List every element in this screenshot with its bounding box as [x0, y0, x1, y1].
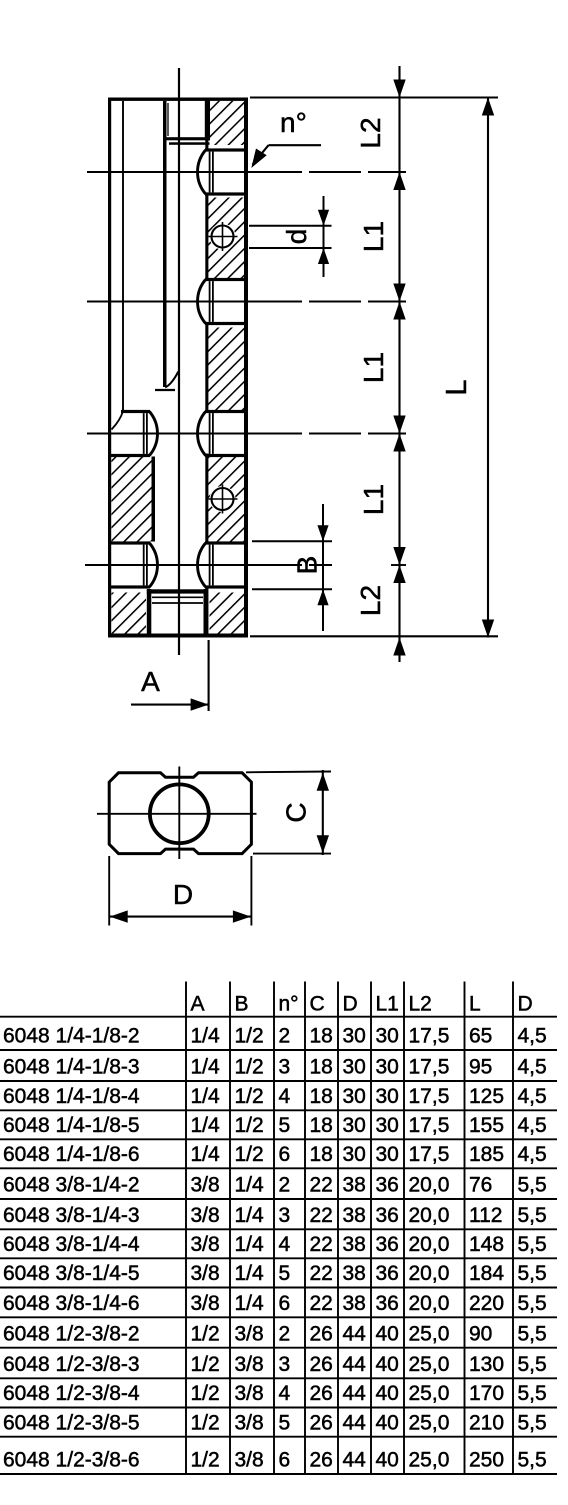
- svg-text:36: 36: [376, 1262, 399, 1285]
- svg-text:4,5: 4,5: [518, 1085, 547, 1108]
- svg-text:n°: n°: [279, 993, 299, 1016]
- svg-text:4: 4: [279, 1382, 291, 1405]
- svg-text:22: 22: [310, 1204, 333, 1227]
- svg-text:1/2: 1/2: [235, 1025, 264, 1048]
- svg-text:6048 1/4-1/8-2: 6048 1/4-1/8-2: [3, 1025, 140, 1048]
- svg-text:25,0: 25,0: [409, 1322, 450, 1345]
- svg-text:6048 1/2-3/8-3: 6048 1/2-3/8-3: [3, 1353, 140, 1376]
- svg-text:6048 1/4-1/8-3: 6048 1/4-1/8-3: [3, 1056, 140, 1079]
- svg-text:3/8: 3/8: [191, 1292, 220, 1315]
- svg-text:40: 40: [376, 1322, 399, 1345]
- svg-text:5,5: 5,5: [518, 1382, 547, 1405]
- svg-text:26: 26: [310, 1322, 333, 1345]
- svg-text:5,5: 5,5: [518, 1233, 547, 1256]
- svg-text:38: 38: [343, 1174, 366, 1197]
- svg-text:6048 1/2-3/8-4: 6048 1/2-3/8-4: [3, 1382, 140, 1405]
- svg-text:6048 3/8-1/4-5: 6048 3/8-1/4-5: [3, 1262, 140, 1285]
- svg-text:26: 26: [310, 1353, 333, 1376]
- svg-text:3/8: 3/8: [235, 1411, 264, 1434]
- svg-text:40: 40: [376, 1353, 399, 1376]
- svg-text:B: B: [235, 993, 249, 1016]
- svg-text:30: 30: [376, 1056, 399, 1079]
- svg-text:5,5: 5,5: [518, 1292, 547, 1315]
- svg-text:18: 18: [310, 1025, 333, 1048]
- svg-text:5,5: 5,5: [518, 1174, 547, 1197]
- svg-text:44: 44: [343, 1411, 367, 1434]
- svg-text:1/4: 1/4: [235, 1262, 265, 1285]
- svg-text:20,0: 20,0: [409, 1292, 450, 1315]
- svg-text:6048 1/2-3/8-5: 6048 1/2-3/8-5: [3, 1411, 140, 1434]
- svg-text:20,0: 20,0: [409, 1262, 450, 1285]
- svg-text:3/8: 3/8: [191, 1204, 220, 1227]
- svg-text:20,0: 20,0: [409, 1174, 450, 1197]
- svg-text:3: 3: [279, 1204, 291, 1227]
- svg-text:6: 6: [279, 1292, 291, 1315]
- svg-text:L1: L1: [358, 221, 389, 252]
- svg-text:L1: L1: [376, 993, 399, 1016]
- svg-text:38: 38: [343, 1233, 366, 1256]
- svg-text:6048 1/2-3/8-6: 6048 1/2-3/8-6: [3, 1449, 140, 1472]
- svg-text:36: 36: [376, 1292, 399, 1315]
- svg-text:1/2: 1/2: [235, 1085, 264, 1108]
- svg-text:6048 1/2-3/8-2: 6048 1/2-3/8-2: [3, 1322, 140, 1345]
- svg-text:40: 40: [376, 1449, 399, 1472]
- svg-text:1/4: 1/4: [235, 1292, 265, 1315]
- svg-text:1/4: 1/4: [235, 1204, 265, 1227]
- svg-text:40: 40: [376, 1411, 399, 1434]
- svg-text:2: 2: [279, 1025, 291, 1048]
- svg-text:n°: n°: [280, 107, 307, 138]
- svg-text:17,5: 17,5: [409, 1025, 450, 1048]
- svg-text:1/2: 1/2: [235, 1056, 264, 1079]
- svg-text:L: L: [441, 379, 473, 395]
- svg-text:22: 22: [310, 1292, 333, 1315]
- svg-text:1/4: 1/4: [191, 1085, 221, 1108]
- svg-text:25,0: 25,0: [409, 1449, 450, 1472]
- svg-text:36: 36: [376, 1174, 399, 1197]
- svg-text:5,5: 5,5: [518, 1411, 547, 1434]
- svg-text:22: 22: [310, 1233, 333, 1256]
- svg-text:1/2: 1/2: [191, 1382, 220, 1405]
- svg-text:1/2: 1/2: [235, 1143, 264, 1166]
- svg-text:25,0: 25,0: [409, 1382, 450, 1405]
- svg-text:A: A: [191, 993, 205, 1016]
- svg-text:184: 184: [469, 1262, 504, 1285]
- svg-text:25,0: 25,0: [409, 1353, 450, 1376]
- svg-text:44: 44: [343, 1382, 367, 1405]
- svg-text:d: d: [281, 229, 312, 245]
- svg-text:1/2: 1/2: [191, 1449, 220, 1472]
- svg-text:1/4: 1/4: [235, 1174, 265, 1197]
- svg-text:L2: L2: [355, 585, 386, 616]
- svg-text:5,5: 5,5: [518, 1322, 547, 1345]
- svg-text:6048 1/4-1/8-5: 6048 1/4-1/8-5: [3, 1114, 140, 1137]
- svg-text:4: 4: [279, 1085, 291, 1108]
- svg-text:2: 2: [279, 1174, 291, 1197]
- svg-text:30: 30: [376, 1085, 399, 1108]
- svg-text:170: 170: [469, 1382, 504, 1405]
- svg-text:L2: L2: [409, 993, 432, 1016]
- svg-text:30: 30: [343, 1143, 366, 1166]
- svg-text:1/4: 1/4: [191, 1025, 221, 1048]
- svg-text:185: 185: [469, 1143, 504, 1166]
- svg-text:1/4: 1/4: [191, 1056, 221, 1079]
- svg-text:38: 38: [343, 1204, 366, 1227]
- svg-text:17,5: 17,5: [409, 1143, 450, 1166]
- svg-text:4: 4: [279, 1233, 291, 1256]
- svg-text:30: 30: [376, 1143, 399, 1166]
- svg-text:44: 44: [343, 1449, 367, 1472]
- svg-text:3/8: 3/8: [235, 1353, 264, 1376]
- svg-text:30: 30: [343, 1085, 366, 1108]
- svg-text:18: 18: [310, 1114, 333, 1137]
- svg-text:6048 3/8-1/4-3: 6048 3/8-1/4-3: [3, 1204, 140, 1227]
- svg-text:L2: L2: [355, 117, 386, 148]
- svg-text:1/2: 1/2: [191, 1411, 220, 1434]
- svg-text:17,5: 17,5: [409, 1056, 450, 1079]
- svg-text:2: 2: [279, 1322, 291, 1345]
- svg-text:155: 155: [469, 1114, 504, 1137]
- svg-text:76: 76: [469, 1174, 492, 1197]
- svg-text:22: 22: [310, 1262, 333, 1285]
- svg-text:4,5: 4,5: [518, 1114, 547, 1137]
- svg-text:130: 130: [469, 1353, 504, 1376]
- svg-text:6048 1/4-1/8-6: 6048 1/4-1/8-6: [3, 1143, 140, 1166]
- svg-text:38: 38: [343, 1292, 366, 1315]
- svg-text:C: C: [310, 993, 325, 1016]
- svg-text:250: 250: [469, 1449, 504, 1472]
- svg-text:26: 26: [310, 1382, 333, 1405]
- svg-text:20,0: 20,0: [409, 1233, 450, 1256]
- svg-text:5,5: 5,5: [518, 1449, 547, 1472]
- svg-text:4,5: 4,5: [518, 1143, 547, 1166]
- svg-text:1/4: 1/4: [191, 1143, 221, 1166]
- svg-text:3/8: 3/8: [235, 1449, 264, 1472]
- svg-text:6048 1/4-1/8-4: 6048 1/4-1/8-4: [3, 1085, 140, 1108]
- svg-text:3/8: 3/8: [235, 1322, 264, 1345]
- svg-text:17,5: 17,5: [409, 1085, 450, 1108]
- svg-text:44: 44: [343, 1353, 367, 1376]
- svg-text:5: 5: [279, 1114, 291, 1137]
- svg-text:C: C: [281, 802, 312, 822]
- svg-text:3/8: 3/8: [191, 1233, 220, 1256]
- svg-text:1/2: 1/2: [191, 1353, 220, 1376]
- svg-text:17,5: 17,5: [409, 1114, 450, 1137]
- svg-text:B: B: [292, 556, 323, 575]
- svg-text:40: 40: [376, 1382, 399, 1405]
- svg-text:148: 148: [469, 1233, 504, 1256]
- svg-text:18: 18: [310, 1085, 333, 1108]
- svg-text:30: 30: [343, 1114, 366, 1137]
- svg-text:5: 5: [279, 1262, 291, 1285]
- svg-text:6048 3/8-1/4-4: 6048 3/8-1/4-4: [3, 1233, 140, 1256]
- svg-text:20,0: 20,0: [409, 1204, 450, 1227]
- svg-text:36: 36: [376, 1204, 399, 1227]
- svg-text:5,5: 5,5: [518, 1204, 547, 1227]
- svg-text:90: 90: [469, 1322, 492, 1345]
- svg-text:1/4: 1/4: [235, 1233, 265, 1256]
- svg-text:D: D: [518, 993, 533, 1016]
- svg-text:6: 6: [279, 1143, 291, 1166]
- svg-text:30: 30: [343, 1056, 366, 1079]
- svg-text:A: A: [141, 666, 160, 697]
- svg-text:5,5: 5,5: [518, 1353, 547, 1376]
- svg-text:26: 26: [310, 1449, 333, 1472]
- svg-text:1/4: 1/4: [191, 1114, 221, 1137]
- svg-text:5,5: 5,5: [518, 1262, 547, 1285]
- svg-text:1/2: 1/2: [191, 1322, 220, 1345]
- svg-text:65: 65: [469, 1025, 492, 1048]
- svg-text:L: L: [469, 993, 481, 1016]
- svg-text:36: 36: [376, 1233, 399, 1256]
- svg-text:38: 38: [343, 1262, 366, 1285]
- svg-text:30: 30: [343, 1025, 366, 1048]
- svg-text:3/8: 3/8: [191, 1174, 220, 1197]
- svg-text:22: 22: [310, 1174, 333, 1197]
- svg-text:44: 44: [343, 1322, 367, 1345]
- svg-text:18: 18: [310, 1143, 333, 1166]
- svg-text:30: 30: [376, 1114, 399, 1137]
- svg-text:4,5: 4,5: [518, 1025, 547, 1048]
- svg-text:3/8: 3/8: [235, 1382, 264, 1405]
- svg-text:4,5: 4,5: [518, 1056, 547, 1079]
- svg-text:3/8: 3/8: [191, 1262, 220, 1285]
- svg-text:3: 3: [279, 1353, 291, 1376]
- svg-text:5: 5: [279, 1411, 291, 1434]
- svg-text:30: 30: [376, 1025, 399, 1048]
- svg-text:D: D: [343, 993, 358, 1016]
- svg-text:95: 95: [469, 1056, 492, 1079]
- svg-text:112: 112: [469, 1204, 502, 1227]
- svg-text:D: D: [173, 879, 193, 910]
- svg-text:L1: L1: [358, 484, 389, 515]
- svg-text:125: 125: [469, 1085, 504, 1108]
- svg-text:6: 6: [279, 1449, 291, 1472]
- svg-text:18: 18: [310, 1056, 333, 1079]
- svg-text:6048 3/8-1/4-6: 6048 3/8-1/4-6: [3, 1292, 140, 1315]
- svg-text:6048 3/8-1/4-2: 6048 3/8-1/4-2: [3, 1174, 140, 1197]
- svg-text:1/2: 1/2: [235, 1114, 264, 1137]
- svg-text:3: 3: [279, 1056, 291, 1079]
- svg-text:26: 26: [310, 1411, 333, 1434]
- svg-text:220: 220: [469, 1292, 504, 1315]
- svg-text:210: 210: [469, 1411, 504, 1434]
- svg-text:25,0: 25,0: [409, 1411, 450, 1434]
- svg-text:L1: L1: [358, 352, 389, 383]
